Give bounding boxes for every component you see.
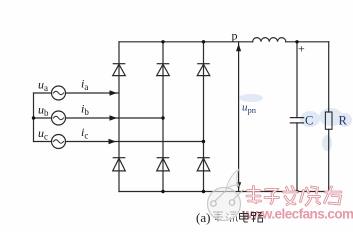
current arrow ic bbox=[109, 139, 117, 144]
resistor R branch bottom wire bbox=[328, 129, 330, 191]
voltage arrow up (at node p) bbox=[236, 44, 241, 52]
node: phase c / leg 3 junction bbox=[202, 140, 205, 143]
node: phase b / leg 2 junction bbox=[161, 116, 164, 119]
wire: phase b to bridge leg 2 bbox=[66, 117, 164, 119]
node: top rail capacitor tap bbox=[295, 40, 298, 43]
ac source ub bbox=[52, 111, 66, 125]
node: bottom rail capacitor tap bbox=[295, 190, 298, 193]
svg-text:ib: ib bbox=[81, 102, 89, 118]
diode D4 (bottom, leg 1) bbox=[113, 158, 126, 171]
wire: phase b stub bbox=[34, 117, 52, 119]
wire: phase c to bridge leg 3 bbox=[66, 141, 204, 143]
zi bbox=[265, 190, 279, 204]
bridge leg 2 vertical wire bbox=[162, 42, 164, 192]
wire: bottom dc rail bbox=[119, 191, 329, 193]
pink watermark brand text (decorative) bbox=[247, 187, 341, 206]
diode D3 (top, leg 2) bbox=[157, 64, 170, 76]
svg-text:uc: uc bbox=[38, 126, 48, 142]
wire: left common bus bbox=[33, 93, 35, 142]
svg-text:ub: ub bbox=[38, 103, 49, 119]
char lu (approx) bbox=[252, 213, 264, 223]
caption (a) rectifier circuit bbox=[196, 210, 263, 225]
gray logo watermark (decorative) bbox=[208, 170, 244, 221]
svg-text:+: + bbox=[298, 42, 305, 56]
diode D1 (top, leg 1) bbox=[113, 64, 126, 76]
current arrow ib bbox=[110, 115, 118, 120]
svg-text:p: p bbox=[232, 29, 238, 43]
wire: phase a to bridge leg 1 bbox=[66, 92, 120, 94]
char dian (approx) bbox=[240, 211, 249, 222]
svg-text:R: R bbox=[339, 114, 348, 128]
node: top rail leg 2 bbox=[161, 40, 164, 43]
wire: voltage measurement line p-n bbox=[238, 42, 240, 192]
dian bbox=[247, 187, 261, 203]
node: top rail leg 3 bbox=[202, 40, 205, 43]
svg-text:upn: upn bbox=[242, 102, 257, 116]
svg-text:ua: ua bbox=[38, 78, 48, 94]
shao bbox=[301, 187, 320, 205]
capacitor C branch bottom wire bbox=[296, 123, 298, 192]
char zheng (approx) bbox=[213, 212, 223, 222]
current arrow ia bbox=[110, 90, 118, 95]
diode D2 (bottom, leg 3) bbox=[197, 158, 210, 171]
svg-text:(a): (a) bbox=[196, 210, 210, 225]
voltage arrow down (at node n) bbox=[236, 182, 241, 190]
node: left bus junction bbox=[32, 116, 35, 119]
you bbox=[325, 187, 342, 204]
capacitor C bbox=[290, 118, 303, 123]
node: bottom rail leg 2 bbox=[161, 190, 164, 193]
inductor L bbox=[253, 38, 286, 42]
diode D5 (top, leg 3) bbox=[197, 64, 210, 76]
diode D6 (bottom, leg 2) bbox=[157, 158, 170, 171]
node: bottom rail leg 3 bbox=[202, 190, 205, 193]
resistor R bbox=[325, 112, 332, 129]
faint blue watermark smudges (decorative) bbox=[239, 94, 352, 151]
ac source ua bbox=[52, 86, 66, 100]
resistor R branch top wire bbox=[328, 42, 330, 112]
bridge leg 1 vertical wire bbox=[118, 42, 120, 192]
wire: phase a stub bbox=[34, 92, 52, 94]
ac source uc bbox=[52, 135, 66, 149]
svg-text:ic: ic bbox=[81, 125, 88, 141]
svg-text:ia: ia bbox=[81, 77, 88, 93]
capacitor C branch top wire bbox=[296, 42, 298, 118]
bridge leg 3 vertical wire bbox=[203, 42, 205, 192]
wire: top dc rail bbox=[119, 41, 329, 43]
svg-text:C: C bbox=[305, 114, 313, 128]
wire: phase c stub bbox=[34, 141, 52, 143]
char liu (approx) bbox=[226, 212, 238, 222]
fa bbox=[284, 187, 298, 205]
